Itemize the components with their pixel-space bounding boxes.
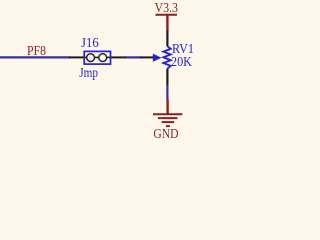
wire to GND (vertical) [166, 85, 168, 100]
svg-text:Jmp: Jmp [79, 66, 98, 81]
potentiometer RV1 pin 1 (top) [166, 31, 168, 47]
svg-text:20K: 20K [171, 55, 192, 70]
wire PF8 net (horizontal, left) [0, 56, 70, 58]
jumper J16 body box [84, 51, 110, 64]
svg-text:GND: GND [153, 127, 178, 142]
ground bar 2 [158, 117, 178, 119]
svg-text:PF8: PF8 [27, 44, 46, 59]
ground bar 4 [166, 125, 170, 127]
jumper J16 internal link line [85, 56, 111, 58]
jumper J16 pin 1 [69, 56, 85, 58]
ground bar 3 [162, 121, 175, 123]
potentiometer RV1 resistive element (zigzag) [163, 46, 170, 68]
potentiometer RV1 wiper pin [140, 56, 154, 58]
svg-text:J16: J16 [81, 36, 99, 51]
jumper J16 pin-2 circle [99, 54, 107, 62]
ground bar 1 [153, 113, 182, 115]
jumper J16 pin-1 circle [87, 54, 95, 62]
potentiometer RV1 wiper arrow [153, 54, 162, 62]
power port V3.3 stem [166, 15, 168, 31]
ground GND stem [166, 100, 168, 115]
potentiometer RV1 pin 2 (bottom) [166, 69, 168, 86]
jumper J16 pin 2 [110, 56, 126, 58]
power port V3.3 bar [156, 14, 178, 16]
wire between jumper and potentiometer wiper [125, 56, 141, 58]
